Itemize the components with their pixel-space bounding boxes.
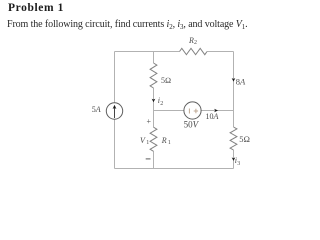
svg-text:3: 3 <box>237 161 240 167</box>
svg-text:10A: 10A <box>206 112 219 121</box>
svg-text:2: 2 <box>160 101 163 107</box>
svg-text:+: + <box>147 117 152 126</box>
svg-text:V: V <box>140 136 146 145</box>
svg-text:5Ω: 5Ω <box>239 134 250 144</box>
svg-text:R: R <box>161 136 167 145</box>
svg-text:50V: 50V <box>184 119 200 129</box>
svg-text:8A: 8A <box>236 77 246 87</box>
svg-text:5Ω: 5Ω <box>161 76 171 85</box>
svg-text:1: 1 <box>146 140 149 146</box>
svg-text:1: 1 <box>168 140 171 146</box>
svg-text:5A: 5A <box>92 105 101 114</box>
svg-text:2: 2 <box>194 40 197 46</box>
